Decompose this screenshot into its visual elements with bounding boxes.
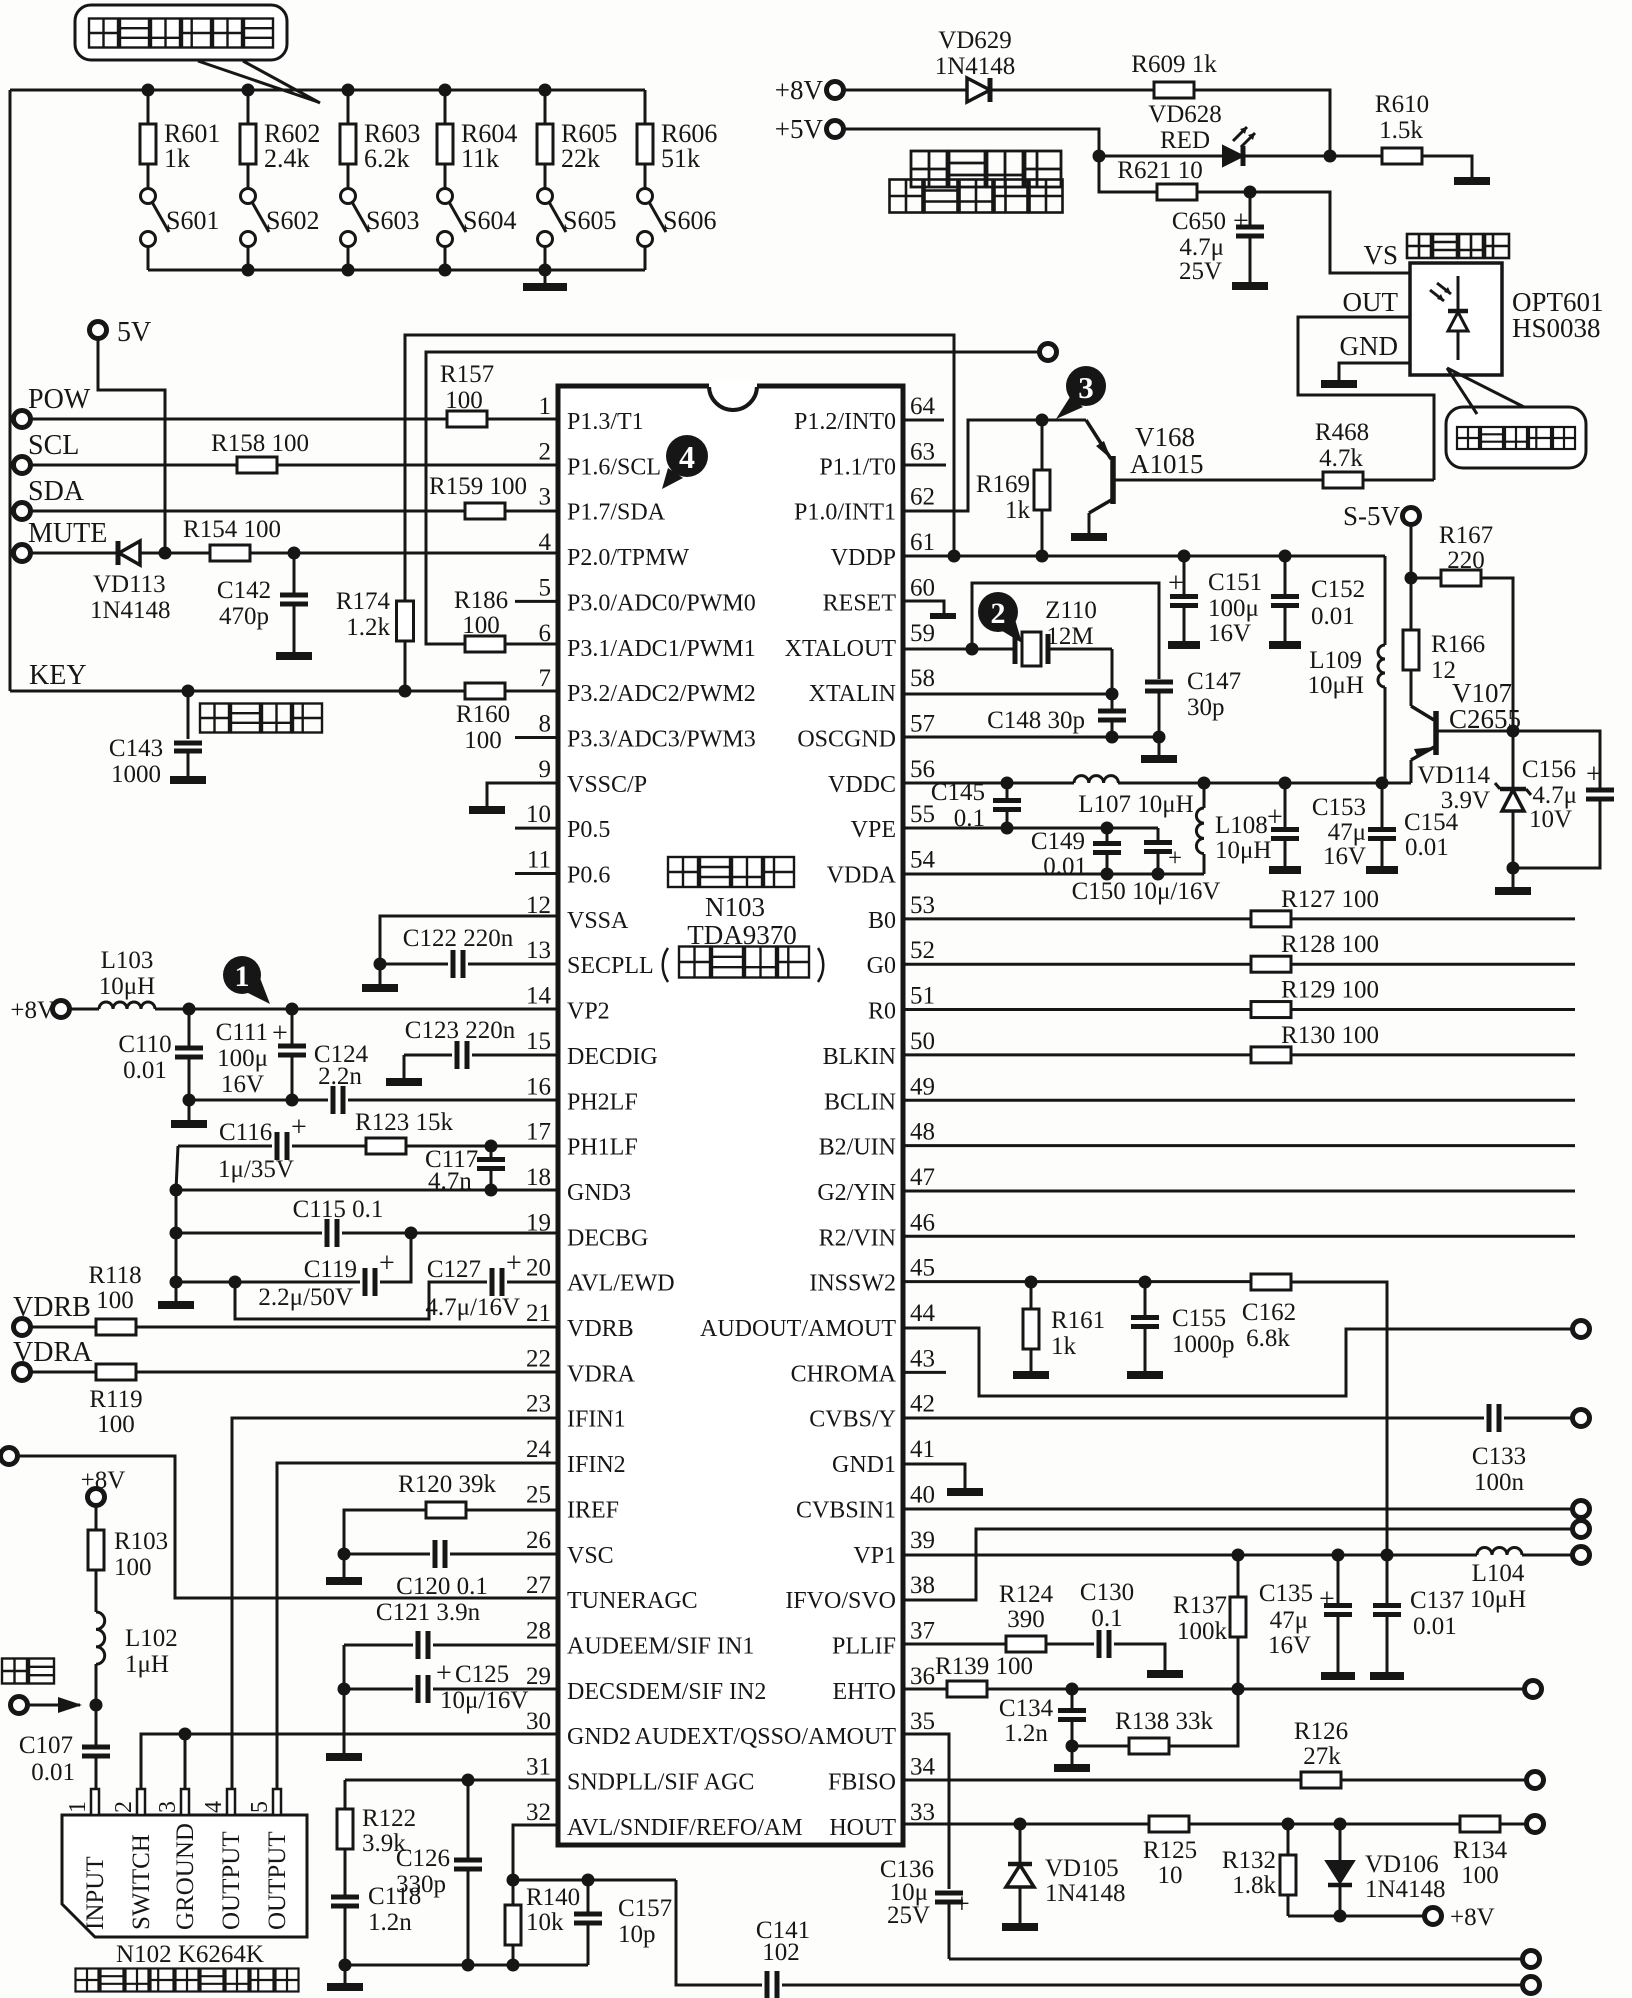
resistor R160 100 xyxy=(456,683,510,754)
pin 54 VDDA bus xyxy=(903,873,1204,876)
node C149 top xyxy=(1101,822,1114,835)
svg-text:1N4148: 1N4148 xyxy=(1045,1880,1126,1907)
svg-text:0.01: 0.01 xyxy=(31,1759,75,1786)
svg-text:+: + xyxy=(1233,206,1249,237)
pin label VS xyxy=(1363,240,1398,270)
svg-text:FBISO: FBISO xyxy=(828,1770,896,1796)
svg-text:10μH: 10μH xyxy=(1470,1586,1526,1613)
wire V107 emitter riser xyxy=(1410,760,1413,783)
capacitor C115 0.1 xyxy=(293,1196,384,1247)
pin 12 VSSA wire xyxy=(380,916,558,964)
svg-text:VSSC/P: VSSC/P xyxy=(567,772,647,798)
node LED line left xyxy=(1093,150,1106,163)
svg-text:C151: C151 xyxy=(1208,569,1262,596)
terminal +8V (VP2) xyxy=(10,997,69,1024)
svg-text:42: 42 xyxy=(910,1391,935,1418)
svg-text:R118: R118 xyxy=(88,1262,141,1289)
svg-text:VDRA: VDRA xyxy=(13,1337,93,1368)
pin label GND xyxy=(1340,331,1399,361)
capacitor C119 2.2u/50V xyxy=(258,1248,394,1311)
svg-text:1: 1 xyxy=(539,393,552,420)
capacitor C133 100n xyxy=(1472,1404,1572,1496)
svg-text:10μ/16V: 10μ/16V xyxy=(440,1687,528,1714)
svg-text:39: 39 xyxy=(910,1527,935,1554)
terminal EHTO xyxy=(1525,1681,1542,1698)
balloon 4 xyxy=(662,435,708,489)
ground C143 bar xyxy=(170,776,206,784)
svg-text:C150 10μ/16V: C150 10μ/16V xyxy=(1072,878,1221,905)
svg-text:1000: 1000 xyxy=(111,761,161,788)
svg-text:R154 100: R154 100 xyxy=(183,516,281,543)
wire to bottom line xyxy=(676,1880,762,1985)
N102 label OUTPUT xyxy=(264,1831,291,1930)
capacitor C157 10p xyxy=(574,1880,672,1965)
svg-text:BCLIN: BCLIN xyxy=(824,1089,896,1115)
svg-text:IFIN2: IFIN2 xyxy=(567,1452,626,1478)
svg-text:SCL: SCL xyxy=(28,430,79,461)
bubble callout pointer xyxy=(198,61,320,103)
capacitor C111 100u 16V xyxy=(216,1009,306,1100)
svg-text:29: 29 xyxy=(526,1663,551,1690)
node V107 base xyxy=(1507,725,1520,738)
svg-text:R621 10: R621 10 xyxy=(1117,157,1202,184)
svg-text:22k: 22k xyxy=(561,144,600,173)
terminal VDRA xyxy=(13,1337,93,1381)
wire R609 to LED node xyxy=(1194,90,1330,156)
wire SCL line xyxy=(31,464,237,467)
svg-text:L103: L103 xyxy=(101,947,154,974)
svg-text:R158 100: R158 100 xyxy=(211,430,309,457)
resistor R103 100 xyxy=(88,1528,168,1581)
svg-text:4: 4 xyxy=(201,1801,227,1813)
svg-text:27k: 27k xyxy=(1303,1743,1341,1770)
terminal VP1 line xyxy=(1573,1547,1590,1564)
svg-text:37: 37 xyxy=(910,1617,935,1644)
IC N103 TDA9370 body xyxy=(558,384,903,1845)
N102 label INPUT xyxy=(82,1856,109,1930)
wire left edge vertical xyxy=(9,90,12,691)
svg-text:16: 16 xyxy=(526,1073,551,1100)
terminal IFVO xyxy=(1573,1521,1590,1538)
svg-text:P1.7/SDA: P1.7/SDA xyxy=(567,500,666,526)
svg-text:R128 100: R128 100 xyxy=(1281,931,1379,958)
svg-text:EHTO: EHTO xyxy=(832,1679,896,1705)
terminal +5V xyxy=(775,114,844,144)
svg-text:C127: C127 xyxy=(427,1256,481,1283)
resistor R604 xyxy=(437,90,517,173)
capacitor C150 10u/16V xyxy=(1072,828,1221,905)
svg-text:5: 5 xyxy=(539,574,552,601)
capacitor C147 30p xyxy=(1145,668,1241,737)
wire pin62 net xyxy=(903,420,1086,511)
resistor R157 100 xyxy=(440,361,494,427)
wire +8V to VD629 xyxy=(844,89,967,92)
svg-text:4: 4 xyxy=(539,529,552,556)
wire R119 to pin22 xyxy=(136,1371,558,1374)
svg-text:C154: C154 xyxy=(1404,809,1459,836)
svg-text:1N4148: 1N4148 xyxy=(90,597,171,624)
svg-text:51k: 51k xyxy=(661,144,700,173)
wire R123 to pin17 xyxy=(406,1145,558,1148)
svg-text:IREF: IREF xyxy=(567,1497,619,1523)
svg-text:1μH: 1μH xyxy=(125,1651,169,1678)
svg-text:N103: N103 xyxy=(705,892,765,922)
svg-text:+: + xyxy=(1168,568,1184,599)
svg-text:P1.1/T0: P1.1/T0 xyxy=(819,454,896,480)
svg-text:R119: R119 xyxy=(89,1386,142,1413)
svg-text:4.7μ/16V: 4.7μ/16V xyxy=(425,1294,520,1321)
pin 46 line xyxy=(903,1235,1575,1238)
capacitor C116 1u/35V xyxy=(178,1112,307,1183)
svg-text:C130: C130 xyxy=(1080,1579,1134,1606)
svg-text:L109: L109 xyxy=(1309,647,1362,674)
resistor R609 1k xyxy=(1131,51,1217,98)
terminal HOUT xyxy=(1527,1816,1544,1833)
svg-text:AUDEEM/SIF IN1: AUDEEM/SIF IN1 xyxy=(567,1633,754,1659)
svg-text:C156: C156 xyxy=(1522,756,1576,783)
bubble pointer to OPT601 xyxy=(1447,368,1524,414)
label 声表面波中频滤波器 xyxy=(76,1969,299,1992)
svg-text:SNDPLL/SIF AGC: SNDPLL/SIF AGC xyxy=(567,1770,754,1796)
pin 45 INSSW2 line xyxy=(903,1280,1251,1283)
resistor R166 12 xyxy=(1403,578,1485,706)
capacitor C117 4.7n xyxy=(425,1146,505,1195)
svg-text:+8V: +8V xyxy=(81,1467,126,1494)
resistor R139 100 xyxy=(935,1653,1033,1697)
wire VD629 to R609 xyxy=(990,89,1154,92)
svg-text:47μ: 47μ xyxy=(1270,1607,1308,1634)
label bubble 按键操作电路 xyxy=(75,5,287,60)
svg-text:+: + xyxy=(954,1889,970,1920)
svg-text:C122 220n: C122 220n xyxy=(403,925,514,952)
junction bottom bus xyxy=(539,264,552,277)
svg-text:390: 390 xyxy=(1007,1606,1045,1633)
svg-text:64: 64 xyxy=(910,393,936,420)
node C126 top xyxy=(462,1774,475,1787)
wire VD113 to R154 xyxy=(140,552,210,555)
node C148 bottom xyxy=(1106,731,1119,744)
resistor R125 10 xyxy=(1143,1816,1197,1889)
svg-text:C121 3.9n: C121 3.9n xyxy=(376,1599,481,1626)
svg-text:+: + xyxy=(1168,845,1182,872)
node L108 top xyxy=(1198,777,1211,790)
wire R132/VD106 bottom xyxy=(1288,1915,1424,1918)
capacitor C120 0.1 xyxy=(344,1540,558,1600)
svg-text:C153: C153 xyxy=(1312,794,1366,821)
wire GND pin xyxy=(1339,363,1410,380)
svg-text:R137: R137 xyxy=(1173,1592,1227,1619)
svg-text:S604: S604 xyxy=(463,206,516,235)
svg-text:VDRA: VDRA xyxy=(567,1361,636,1387)
label N102 K6264K xyxy=(116,1941,264,1968)
svg-text:BLKIN: BLKIN xyxy=(823,1044,896,1070)
svg-text:C650: C650 xyxy=(1172,208,1226,235)
svg-text:330p: 330p xyxy=(396,1871,446,1898)
svg-text:POW: POW xyxy=(28,384,91,415)
svg-text:R138 33k: R138 33k xyxy=(1115,1708,1213,1735)
node R132 top xyxy=(1282,1818,1295,1831)
svg-text:C155: C155 xyxy=(1172,1305,1226,1332)
wire R186 to pin6 xyxy=(504,643,558,646)
svg-text:MUTE: MUTE xyxy=(28,518,107,549)
svg-text:+: + xyxy=(506,1248,522,1279)
wire +8V to R103 xyxy=(95,1506,98,1530)
wire node to VS riser xyxy=(1250,192,1410,273)
wire C116 to R123 xyxy=(292,1145,366,1148)
node pin30 line xyxy=(179,1728,192,1741)
svg-text:IFIN1: IFIN1 xyxy=(567,1407,626,1433)
svg-text:VS: VS xyxy=(1363,240,1398,270)
svg-text:GND: GND xyxy=(1340,331,1399,361)
svg-text:P0.5: P0.5 xyxy=(567,817,610,843)
resistor R468 4.7k xyxy=(1315,419,1434,488)
svg-text:12M: 12M xyxy=(1046,623,1093,650)
svg-text:SDA: SDA xyxy=(28,476,85,507)
capacitor C154 0.01 xyxy=(1366,783,1459,870)
resistor R159 100 xyxy=(429,473,527,519)
node rail R122 xyxy=(339,1959,352,1972)
capacitor C137 0.01 xyxy=(1370,1555,1464,1676)
resistor R154 100 xyxy=(183,516,281,561)
ground rail bottom-left xyxy=(327,1965,363,1987)
resistor R122 3.9k xyxy=(337,1780,416,1857)
node VD106 bottom xyxy=(1334,1910,1347,1923)
remote receiver OPT601 HS0038 box xyxy=(1410,263,1604,375)
svg-text:62: 62 xyxy=(910,484,935,511)
capacitor C135 47u 16V xyxy=(1259,1555,1355,1676)
wire C127 to pin20 xyxy=(507,1281,558,1284)
resistor R602 xyxy=(240,90,320,173)
svg-text:GND2: GND2 xyxy=(567,1724,631,1750)
svg-text:R169: R169 xyxy=(976,471,1030,498)
svg-text:R134: R134 xyxy=(1453,1837,1508,1864)
node IF xyxy=(90,1699,103,1712)
wire crystal top loop xyxy=(972,583,1159,679)
capacitor C107 0.01 xyxy=(19,1705,110,1815)
svg-text:R2/VIN: R2/VIN xyxy=(819,1225,896,1251)
capacitor C151 100u 16V xyxy=(1168,556,1262,647)
inductor L103 10uH xyxy=(70,947,155,1009)
photodiode inside OPT601 xyxy=(1430,276,1468,360)
svg-text:220: 220 xyxy=(1447,547,1485,574)
ground C121 rail xyxy=(326,1753,362,1761)
svg-text:P3.2/ADC2/PWM2: P3.2/ADC2/PWM2 xyxy=(567,681,756,707)
label 键控信号 xyxy=(200,704,322,733)
svg-text:0.01: 0.01 xyxy=(123,1057,167,1084)
svg-text:R120 39k: R120 39k xyxy=(398,1471,496,1498)
svg-text:59: 59 xyxy=(910,620,935,647)
svg-text:R167: R167 xyxy=(1439,522,1493,549)
resistor R603 xyxy=(340,90,420,173)
transistor V168 A1015 xyxy=(1086,420,1323,533)
N102 pin 4 lead and number xyxy=(201,1789,235,1815)
svg-text:13: 13 xyxy=(526,937,551,964)
node rail AVL xyxy=(170,1276,183,1289)
node R169 bottom VDDP xyxy=(1036,550,1049,563)
pin 60 RESET stub xyxy=(903,601,956,616)
label L104 10uH xyxy=(1470,1560,1526,1613)
terminal bottom right 1 xyxy=(1523,1951,1540,1968)
svg-text:2.4k: 2.4k xyxy=(264,144,310,173)
svg-text:22: 22 xyxy=(526,1345,551,1372)
svg-text:R126: R126 xyxy=(1294,1718,1348,1745)
svg-text:23: 23 xyxy=(526,1391,551,1418)
svg-text:18: 18 xyxy=(526,1164,551,1191)
resistor R123 15k xyxy=(355,1109,453,1154)
wire C110/C111 bottom rail xyxy=(189,1099,328,1102)
ground button bus xyxy=(523,270,567,287)
pin 59 XTALOUT wire xyxy=(903,648,1015,651)
node VD114 bottom xyxy=(1507,862,1520,875)
svg-text:R129 100: R129 100 xyxy=(1281,977,1379,1004)
svg-text:10V: 10V xyxy=(1529,806,1572,833)
capacitor C155 1000p xyxy=(1127,1282,1235,1375)
node C153 top xyxy=(1279,777,1292,790)
node R137 bottom xyxy=(1232,1683,1245,1696)
svg-text:5V: 5V xyxy=(117,317,151,348)
terminal CVBS xyxy=(1573,1410,1590,1427)
svg-text:36: 36 xyxy=(910,1663,935,1690)
svg-text:3: 3 xyxy=(155,1801,181,1813)
svg-text:0.01: 0.01 xyxy=(1311,603,1355,630)
resistor R621 10 xyxy=(1117,157,1202,200)
zener VD114 3.9V xyxy=(1417,731,1531,864)
balloon 3 xyxy=(1056,366,1106,419)
capacitor C123 220n (pin15) xyxy=(386,1017,558,1082)
ground C130 xyxy=(1114,1644,1183,1674)
svg-text:25: 25 xyxy=(526,1481,551,1508)
node C157 top xyxy=(582,1874,595,1887)
junction bottom bus xyxy=(342,264,355,277)
svg-text:C126: C126 xyxy=(396,1845,450,1872)
balloon 1 xyxy=(223,956,270,1004)
svg-text:GND3: GND3 xyxy=(567,1180,631,1206)
svg-text:KEY: KEY xyxy=(29,660,87,691)
transistor V107 C2655 xyxy=(1411,678,1521,783)
svg-text:INSSW2: INSSW2 xyxy=(809,1271,896,1297)
terminal VDRB xyxy=(13,1292,91,1336)
svg-text:100k: 100k xyxy=(1177,1618,1228,1645)
svg-text:54: 54 xyxy=(910,847,936,874)
svg-text:16V: 16V xyxy=(1268,1632,1311,1659)
node C155 top xyxy=(1139,1276,1152,1289)
terminal CVBSIN1 xyxy=(1573,1501,1590,1518)
wire C127 detour xyxy=(235,1282,487,1319)
pin 48 line xyxy=(903,1144,1575,1147)
pin 56 VDDC bus xyxy=(903,776,1411,783)
svg-text:AVL/EWD: AVL/EWD xyxy=(567,1271,675,1297)
svg-text:1N4148: 1N4148 xyxy=(935,53,1016,80)
svg-text:C123 220n: C123 220n xyxy=(405,1017,516,1044)
svg-text:R103: R103 xyxy=(114,1528,168,1555)
svg-text:6: 6 xyxy=(539,620,552,647)
svg-text:P1.2/INT0: P1.2/INT0 xyxy=(794,409,896,435)
svg-text:C162: C162 xyxy=(1242,1299,1296,1326)
svg-text:100n: 100n xyxy=(1474,1469,1525,1496)
svg-text:16V: 16V xyxy=(1323,843,1366,870)
wire VDRA xyxy=(31,1371,96,1374)
pin 33 HOUT line xyxy=(903,1823,1149,1826)
svg-text:1.2k: 1.2k xyxy=(346,614,390,641)
wire EHTO line xyxy=(987,1688,1524,1691)
svg-text:A1015: A1015 xyxy=(1130,449,1204,479)
wire POW line xyxy=(31,418,447,421)
svg-text:+: + xyxy=(272,1018,288,1049)
capacitor C110 0.01 xyxy=(118,1009,203,1100)
wire button bottom bus xyxy=(148,269,645,272)
wire C119 riser xyxy=(380,1233,411,1282)
capacitor C143 1000 xyxy=(109,691,202,788)
node C149 bottom xyxy=(1101,868,1114,881)
svg-text:R130 100: R130 100 xyxy=(1281,1022,1379,1049)
svg-text:VDDC: VDDC xyxy=(828,772,896,798)
switch S602 xyxy=(241,164,320,270)
capacitor C148 30p xyxy=(987,694,1126,737)
resistor R134 100 xyxy=(1453,1816,1508,1889)
svg-text:47: 47 xyxy=(910,1164,935,1191)
svg-text:4.7μ: 4.7μ xyxy=(1532,782,1577,809)
pin 50 line with resistor R130 100 xyxy=(903,1022,1575,1063)
node C122 left xyxy=(374,958,387,971)
svg-text:51: 51 xyxy=(910,983,935,1010)
svg-text:1μ/35V: 1μ/35V xyxy=(218,1156,294,1183)
svg-text:S601: S601 xyxy=(166,206,219,235)
svg-text:R166: R166 xyxy=(1431,631,1485,658)
ground R610 xyxy=(1454,177,1490,185)
svg-text:8: 8 xyxy=(539,710,552,737)
wire VDRB xyxy=(31,1326,96,1329)
svg-text:C142: C142 xyxy=(217,577,271,604)
svg-text:XTALIN: XTALIN xyxy=(809,681,896,707)
svg-text:VD114: VD114 xyxy=(1417,762,1490,789)
svg-text:25V: 25V xyxy=(1179,258,1222,285)
ground C120 xyxy=(326,1554,362,1581)
capacitor C152 0.01 xyxy=(1269,556,1365,645)
wire crystal right to pin58 xyxy=(1111,649,1114,694)
wire R125 to R134 xyxy=(1189,1823,1460,1826)
svg-text:1.8k: 1.8k xyxy=(1232,1872,1276,1899)
svg-text:1.2n: 1.2n xyxy=(1004,1720,1048,1747)
node C110 xyxy=(183,1003,196,1016)
svg-text:R610: R610 xyxy=(1375,91,1429,118)
terminal SDA-out top right xyxy=(1040,344,1057,361)
svg-text:P1.6/SCL: P1.6/SCL xyxy=(567,454,661,480)
wire node to R610 xyxy=(1330,155,1383,158)
N102 label GROUND xyxy=(172,1823,199,1930)
resistor R132 1.8k xyxy=(1222,1824,1296,1916)
svg-text:C119: C119 xyxy=(304,1256,357,1283)
svg-text:470p: 470p xyxy=(219,603,269,630)
svg-text:C135: C135 xyxy=(1259,1580,1313,1607)
ground C650 xyxy=(1232,282,1268,290)
wire OUT pin path xyxy=(1298,317,1434,480)
terminal 5V xyxy=(90,317,152,348)
node C119 riser top xyxy=(405,1227,418,1240)
terminal S-5V xyxy=(1343,501,1420,531)
svg-text:C107: C107 xyxy=(19,1732,73,1759)
terminal POW xyxy=(14,384,91,428)
node KEY riser xyxy=(399,685,412,698)
svg-text:27: 27 xyxy=(526,1572,551,1599)
pin 18 GND3 wire xyxy=(176,1189,558,1192)
wire pin6 riser xyxy=(426,352,1040,644)
svg-text:OSCGND: OSCGND xyxy=(797,726,896,752)
svg-text:P3.3/ADC3/PWM3: P3.3/ADC3/PWM3 xyxy=(567,726,756,752)
node top bus at R602 xyxy=(242,84,255,97)
svg-text:32: 32 xyxy=(526,1799,551,1826)
LED VD628 RED xyxy=(1148,101,1255,166)
svg-text:47μ: 47μ xyxy=(1328,819,1366,846)
